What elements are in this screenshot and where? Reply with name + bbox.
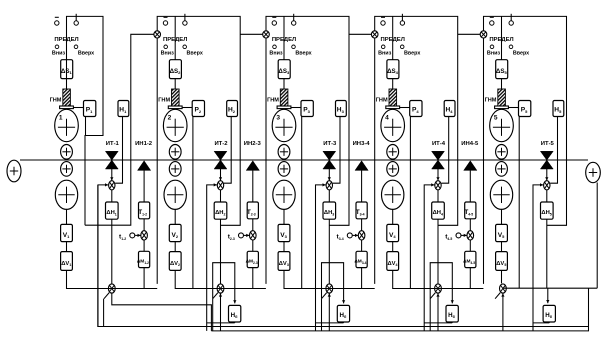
box T4-5 <box>464 202 476 219</box>
box V3 <box>278 224 290 241</box>
summing circle stage 4 lower <box>387 162 399 177</box>
summing node left terminal <box>7 160 21 182</box>
wire ΔH3 down to node C3 <box>328 219 330 283</box>
wire valve ИТ-5 to node B5 <box>545 168 548 181</box>
node B2 crossed-circle under valve <box>217 181 223 190</box>
wire long bus L3 <box>98 185 589 327</box>
setpoint box ΔS1 <box>61 60 73 79</box>
wire node D4-5 to ΔM4-5 <box>469 240 471 252</box>
summing circle stage 5 upper <box>496 145 508 160</box>
wire arrow into node C5 from bottom bus <box>501 293 504 331</box>
wire t1-2 into node D1-2 <box>135 234 141 237</box>
box ΔH3 <box>323 202 336 219</box>
wire ΔM1-2 to bottom bus <box>143 268 145 289</box>
box P5 <box>519 101 531 117</box>
terminal Вверх contact stage 1 <box>74 14 78 25</box>
summing node right terminal <box>586 162 601 182</box>
svg-text:5: 5 <box>494 115 498 122</box>
wire H5 down to node B5 <box>550 117 557 184</box>
summing circle stage 2 upper <box>169 145 181 160</box>
limit-unit box stage 2 <box>157 16 240 284</box>
integrator ellipse stage 5 lower <box>490 180 512 209</box>
label ИТ-1 <box>106 141 120 147</box>
label ПРЕДЕЛ stage 2 <box>163 37 187 43</box>
box V4 <box>387 224 399 241</box>
wire V4 to ΔV4 <box>392 242 394 252</box>
label ИН1-2 <box>135 141 153 147</box>
integrator ellipse 4 upper <box>381 109 405 141</box>
integrator ellipse stage 1 lower <box>55 180 77 209</box>
setpoint box ΔS4 <box>387 60 399 79</box>
terminal Вниз contact stage 1 <box>55 17 59 25</box>
wire bridge node C4 to Hб4 <box>430 263 454 304</box>
limit-unit box stage 1 <box>67 16 104 225</box>
label ГНМ stage 4 <box>376 98 388 104</box>
wire P5 down to bottom bus <box>518 117 520 289</box>
wire ΔV3 to bottom node C3 <box>284 270 326 288</box>
box P2 <box>192 101 204 117</box>
label Вверх stage 1 <box>78 50 94 56</box>
label ИН2-3 <box>244 141 262 147</box>
box P1 <box>84 101 96 117</box>
integrator ellipse 5 upper <box>490 109 514 141</box>
wire stage 2 setpoint drop <box>174 16 176 59</box>
wire feeder into node B5 from below <box>533 183 543 331</box>
contact dot Вверх stage 5 <box>509 45 513 49</box>
wire arrow into node C3 from bottom bus <box>328 293 331 331</box>
wire feeder into node B1 from below <box>98 183 108 326</box>
wire H1 down to node B1 <box>115 117 122 184</box>
box ΔH4 <box>432 202 445 219</box>
integrator ellipse 1 upper <box>55 109 79 141</box>
terminal Вверх contact stage 4 <box>400 14 404 25</box>
contact dot Вверх stage 2 <box>183 45 187 49</box>
node D1-2 crossed-circle <box>141 231 148 240</box>
wire Hб4 bottom stub <box>424 321 452 324</box>
wire link node C1 down <box>103 299 105 327</box>
limit-unit box stage 4 <box>375 16 458 284</box>
check arrow ИН3-4 <box>355 161 368 171</box>
summing circle stage 3 lower <box>278 162 290 177</box>
terminal Вверх contact stage 2 <box>183 14 187 25</box>
wire bridge leg down stage 2 <box>212 299 214 331</box>
svg-text:ИН2-3: ИН2-3 <box>244 141 262 147</box>
svg-text:ИТ-4: ИТ-4 <box>432 141 446 147</box>
wire ИН2-3 to T2-3 <box>252 170 254 202</box>
node B4 crossed-circle under valve <box>435 181 441 190</box>
wire long bus L4 <box>211 288 588 331</box>
svg-text:ГНМ: ГНМ <box>485 98 497 104</box>
box V2 <box>169 224 181 241</box>
wire ΔS5 to motor <box>501 79 503 89</box>
box ΔV5 <box>496 252 508 271</box>
wire P3 down to bottom bus <box>301 117 303 289</box>
diagonal tick at node C1 <box>104 293 109 299</box>
wire ΔV2 to bottom node C2 <box>175 270 217 288</box>
svg-text:ИТ-2: ИТ-2 <box>214 141 228 147</box>
label t2-3 <box>228 234 235 241</box>
node C1 crossed-circle bottom <box>108 284 115 293</box>
svg-text:ГНМ: ГНМ <box>267 98 279 104</box>
terminal Вниз contact stage 2 <box>163 17 167 25</box>
wire ΔH4 down to node C4 <box>437 219 439 283</box>
actuator ГНМ stage 5 (hatched) <box>495 89 509 109</box>
box ΔV3 <box>278 252 290 271</box>
wire stage 3 setpoint drop <box>283 16 285 59</box>
wire to P3 <box>291 107 301 109</box>
terminal Вниз contact stage 3 <box>272 17 276 25</box>
wire V3 to ΔV3 <box>283 242 285 252</box>
label ИТ-5 <box>541 141 555 147</box>
diagonal tick at node C2 <box>213 293 218 299</box>
wire bridge leg down stage 4 <box>429 299 431 331</box>
wire ИН3-4 to T3-4 <box>361 170 363 202</box>
svg-text:Вверх: Вверх <box>404 50 420 56</box>
summing circle stage 1 upper <box>61 145 73 160</box>
node A4 crossed-circle on stage 4 left edge <box>371 31 378 38</box>
svg-text:Вниз: Вниз <box>161 50 174 56</box>
svg-text:ИН4-5: ИН4-5 <box>461 141 479 147</box>
wire bridge leg down stage 3 <box>321 299 323 331</box>
node C5 crossed-circle bottom <box>500 284 507 293</box>
wire ΔV5 to bottom node C5 <box>501 270 503 283</box>
wire node B4 to ΔH4 <box>437 190 439 202</box>
svg-text:ГНМ: ГНМ <box>376 98 388 104</box>
valve ИТ-1 <box>105 151 118 169</box>
wire P1 down to jog <box>85 117 87 136</box>
actuator ГНМ stage 2 (hatched) <box>168 89 182 109</box>
wire bottom bus stage 5 <box>503 287 597 289</box>
svg-text:ПРЕДЕЛ: ПРЕДЕЛ <box>54 37 78 43</box>
node C3 crossed-circle bottom <box>326 284 333 293</box>
box Hб4 <box>446 305 458 322</box>
node C4 crossed-circle bottom <box>435 284 442 293</box>
setpoint box ΔS2 <box>169 60 181 79</box>
wire node D1-2 to ΔM1-2 <box>143 240 145 252</box>
label ПРЕДЕЛ stage 5 <box>489 37 513 43</box>
svg-text:3: 3 <box>276 115 280 122</box>
svg-text:Вниз: Вниз <box>52 50 65 56</box>
wire ellipse to V3 <box>283 209 285 225</box>
wire ΔV1 to bottom node C1 <box>67 270 109 288</box>
label ПРЕДЕЛ stage 3 <box>272 37 296 43</box>
node D3-4 crossed-circle <box>358 231 365 240</box>
valve ИТ-4 <box>432 151 445 169</box>
wire ΔH2 down to node C2 <box>220 219 222 283</box>
wire Hб2 bottom stub <box>207 321 235 324</box>
wire T2-3 to node D2-3 <box>252 219 254 231</box>
box Hб2 <box>229 305 241 322</box>
label t3-4 <box>337 234 344 241</box>
label ИТ-2 <box>214 141 228 147</box>
limit-unit box stage 3 <box>266 16 349 284</box>
node B5 crossed-circle under valve <box>544 181 550 190</box>
svg-text:Вниз: Вниз <box>378 50 391 56</box>
actuator ГНМ stage 4 (hatched) <box>386 89 400 109</box>
label ИН3-4 <box>353 141 371 147</box>
svg-text:Вверх: Вверх <box>295 50 311 56</box>
valve ИТ-3 <box>323 151 336 169</box>
box Hб3 <box>337 305 349 322</box>
check arrow ИН4-5 <box>464 161 477 171</box>
wire Hб5 bottom stub <box>533 321 549 324</box>
terminal circle t1-2 <box>130 233 135 238</box>
wire t3-4 into node D3-4 <box>353 234 359 237</box>
wire H2 down to node B2 <box>224 117 231 184</box>
wire ΔM3-4 to bottom bus <box>361 268 363 289</box>
wire node B1 to ΔH1 <box>111 190 113 202</box>
label Вниз stage 5 <box>487 50 500 56</box>
integrator ellipse 3 upper <box>272 109 296 141</box>
summing circle stage 3 upper <box>278 145 290 160</box>
check arrow ИН1-2 <box>138 161 151 171</box>
terminal circle t4-5 <box>456 233 461 238</box>
wire node D3-4 to ΔM3-4 <box>361 240 363 252</box>
actuator ГНМ stage 3 (hatched) <box>277 89 291 109</box>
wire bottom bus stage 4 <box>393 288 484 290</box>
node D4-5 crossed-circle <box>467 231 474 240</box>
terminal Вниз contact stage 5 <box>490 17 494 25</box>
label ГНМ stage 2 <box>158 98 170 104</box>
integrator ellipse 2 upper <box>163 109 187 141</box>
wire T1-2 to node D1-2 <box>143 219 145 231</box>
integrator ellipse stage 4 lower <box>382 180 404 209</box>
box ΔH2 <box>214 202 227 219</box>
svg-text:ИН3-4: ИН3-4 <box>353 141 371 147</box>
wire bottom bus stage 1 <box>67 288 158 290</box>
svg-text:2: 2 <box>168 115 172 122</box>
box H4 <box>444 101 455 117</box>
label Вверх stage 3 <box>295 50 311 56</box>
wire to P1 <box>73 107 83 109</box>
wire ИН4-5 to T4-5 <box>469 170 471 202</box>
label ПРЕДЕЛ stage 1 <box>54 37 78 43</box>
contact dot Вниз stage 1 <box>55 45 59 49</box>
label ИТ-4 <box>432 141 446 147</box>
wire bridge node C3 to Hб3 <box>322 263 346 304</box>
wire node D2-3 to ΔM2-3 <box>252 240 254 252</box>
contact dot Вверх stage 3 <box>292 45 296 49</box>
wire ΔV4 to bottom node C4 <box>393 270 435 288</box>
wire V2 to ΔV2 <box>174 242 176 252</box>
contact dot Вниз stage 5 <box>490 45 494 49</box>
contact dot Вверх stage 1 <box>74 45 78 49</box>
wire stage 3 top edge to node A4 <box>349 33 375 35</box>
box H3 <box>336 101 347 117</box>
box ΔM4-5 <box>463 251 476 267</box>
wire feeder into node B2 from below <box>207 183 217 331</box>
terminal Вверх contact stage 3 <box>292 14 296 25</box>
svg-text:Вниз: Вниз <box>269 50 282 56</box>
svg-text:ПРЕДЕЛ: ПРЕДЕЛ <box>163 37 187 43</box>
diagonal tick at node C5 <box>495 293 500 299</box>
node A2 crossed-circle on stage 2 left edge <box>154 31 161 38</box>
label t1-2 <box>119 234 126 241</box>
wire feeder into node B3 from below <box>316 183 326 331</box>
wire link L2 stage1 to stage2 <box>112 293 212 331</box>
wire ΔH5 down to node C5 <box>546 219 548 288</box>
label ГНМ stage 5 <box>485 98 497 104</box>
node A3 crossed-circle on stage 3 left edge <box>263 31 270 38</box>
wire P2 down to bottom bus <box>192 117 194 289</box>
integrator ellipse stage 2 lower <box>164 180 186 209</box>
wire ellipse to V1 <box>66 209 68 225</box>
wire ΔS3 to motor <box>283 79 285 89</box>
wire main horizontal rail <box>20 159 588 161</box>
box H5 <box>553 101 564 117</box>
wire T3-4 to node D3-4 <box>361 219 363 231</box>
contact dot Вверх stage 4 <box>400 45 404 49</box>
wire feeder into node B4 from below <box>424 183 434 331</box>
node C2 crossed-circle bottom <box>217 284 224 293</box>
wire H4 down to node B4 <box>441 117 448 184</box>
wire ΔS1 to motor <box>66 79 68 89</box>
wire valve ИТ-2 to node B2 <box>219 168 222 181</box>
box P3 <box>301 101 313 117</box>
svg-text:Вниз: Вниз <box>487 50 500 56</box>
check arrow ИН2-3 <box>246 161 259 171</box>
wire to P2 <box>182 107 192 109</box>
wire arrow into node C4 from bottom bus <box>436 293 439 331</box>
setpoint box ΔS3 <box>278 60 290 79</box>
diagonal tick at node C4 <box>430 293 435 299</box>
label Вниз stage 1 <box>52 50 65 56</box>
setpoint box ΔS5 <box>496 60 508 79</box>
wire ellipse to V4 <box>392 209 394 225</box>
box ΔH1 <box>106 202 119 219</box>
wire t4-5 into node D4-5 <box>461 234 467 237</box>
wire bottom bus stage 2 <box>175 288 266 290</box>
wire bottom bus stage 3 <box>284 288 375 290</box>
terminal circle t2-3 <box>239 233 244 238</box>
integrator ellipse stage 3 lower <box>273 180 295 209</box>
summing circle stage 2 lower <box>169 162 181 177</box>
wire node B3 to ΔH3 <box>328 190 330 202</box>
label t4-5 <box>445 234 452 241</box>
label Вверх stage 5 <box>513 50 529 56</box>
svg-text:ПРЕДЕЛ: ПРЕДЕЛ <box>272 37 296 43</box>
wire stage 4 top edge to node A5 <box>458 33 484 35</box>
node A5 crossed-circle on stage 5 left edge <box>480 31 487 38</box>
svg-text:ИТ-3: ИТ-3 <box>323 141 337 147</box>
wire t2-3 into node D2-3 <box>244 234 250 237</box>
wire V5 to ΔV5 <box>501 242 503 252</box>
label ПРЕДЕЛ stage 4 <box>381 37 405 43</box>
svg-text:1: 1 <box>59 115 63 122</box>
box ΔV2 <box>169 252 181 271</box>
wire ΔM2-3 to bottom bus <box>252 268 254 289</box>
svg-text:Вверх: Вверх <box>78 50 94 56</box>
wire valve ИТ-3 to node B3 <box>328 168 331 181</box>
contact dot Вниз stage 2 <box>164 45 168 49</box>
svg-text:Вверх: Вверх <box>513 50 529 56</box>
svg-text:ПРЕДЕЛ: ПРЕДЕЛ <box>381 37 405 43</box>
wire ΔM4-5 to bottom bus <box>469 268 471 289</box>
box H2 <box>227 101 238 117</box>
wire ΔS2 to motor <box>174 79 176 89</box>
svg-text:ГНМ: ГНМ <box>158 98 170 104</box>
label ИН4-5 <box>461 141 479 147</box>
limit-unit box stage 5 <box>484 16 567 284</box>
box H1 <box>118 101 129 117</box>
wire node B2 to ΔH2 <box>220 190 222 202</box>
box ΔM2-3 <box>246 251 259 267</box>
box P4 <box>410 101 422 117</box>
label ГНМ stage 3 <box>267 98 279 104</box>
box Hб5 <box>543 305 555 322</box>
box ΔM1-2 <box>137 251 150 267</box>
wire T4-5 to node D4-5 <box>469 219 471 231</box>
label Вниз stage 2 <box>161 50 174 56</box>
terminal Вниз contact stage 4 <box>381 17 385 25</box>
wire valve ИТ-4 to node B4 <box>436 168 439 181</box>
wire H3 down to node B3 <box>333 117 340 184</box>
svg-text:ИТ-1: ИТ-1 <box>106 141 120 147</box>
wire stage 4 setpoint drop <box>392 16 394 59</box>
label Вниз stage 4 <box>378 50 391 56</box>
box T2-3 <box>247 202 259 219</box>
wire Hб3 bottom stub <box>316 321 344 324</box>
svg-text:ИН1-2: ИН1-2 <box>135 141 153 147</box>
wire ellipse to V2 <box>174 209 176 225</box>
wire arrow into node C2 from bottom bus <box>219 293 222 331</box>
wire right riser to right terminal <box>596 183 598 289</box>
wire ΔS4 to motor <box>392 79 394 89</box>
contact dot Вниз stage 4 <box>381 45 385 49</box>
svg-text:Вверх: Вверх <box>187 50 203 56</box>
valve ИТ-5 <box>540 151 553 169</box>
label Вниз stage 3 <box>269 50 282 56</box>
terminal circle t3-4 <box>347 233 352 238</box>
wire ΔH1 down to node C1 <box>111 219 113 283</box>
wire node B5 to ΔH5 <box>546 190 548 202</box>
wire V1 to ΔV1 <box>66 242 68 252</box>
wire bridge node C2 to Hб2 <box>213 263 237 304</box>
label ИТ-3 <box>323 141 337 147</box>
summing circle stage 1 lower <box>61 162 73 177</box>
svg-text:4: 4 <box>385 115 389 122</box>
svg-text:ГНМ: ГНМ <box>50 98 62 104</box>
node D2-3 crossed-circle <box>250 231 257 240</box>
node B3 crossed-circle under valve <box>326 181 332 190</box>
wire P4 down to bottom bus <box>409 117 411 289</box>
box ΔV4 <box>387 252 399 271</box>
wire ИН1-2 to T1-2 <box>143 170 145 202</box>
label ГНМ stage 1 <box>50 98 62 104</box>
summing circle stage 5 lower <box>496 162 508 177</box>
box T1-2 <box>138 202 150 219</box>
wire Hб5 feed drop <box>546 288 549 303</box>
svg-text:ПРЕДЕЛ: ПРЕДЕЛ <box>489 37 513 43</box>
actuator ГНМ stage 1 (hatched) <box>60 89 74 109</box>
wire stage 1 to node A2 <box>85 34 154 225</box>
summing circle stage 4 upper <box>387 145 399 160</box>
box V1 <box>61 224 73 241</box>
box ΔV1 <box>61 252 73 271</box>
wire stage 2 top edge to node A3 <box>240 33 266 35</box>
svg-text:ИТ-5: ИТ-5 <box>541 141 555 147</box>
label Вверх stage 4 <box>404 50 420 56</box>
terminal Вверх contact stage 5 <box>509 14 513 25</box>
wire stage 5 setpoint drop <box>501 16 503 59</box>
wire to P5 <box>508 107 518 109</box>
box ΔH5 <box>541 202 554 219</box>
wire ellipse to V5 <box>501 209 503 225</box>
box V5 <box>496 224 508 241</box>
label Вверх stage 2 <box>187 50 203 56</box>
node B1 crossed-circle under valve <box>109 181 115 190</box>
valve ИТ-2 <box>214 151 227 169</box>
